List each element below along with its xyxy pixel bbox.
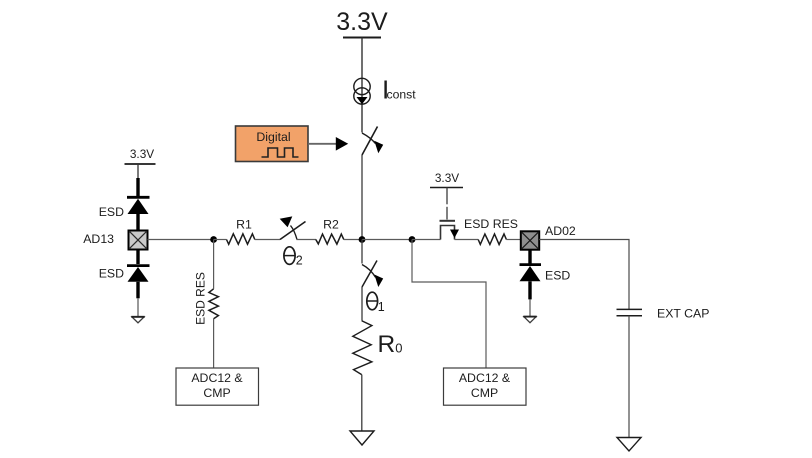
power rail 3.3V left <box>125 147 156 164</box>
ground (below AD02) <box>524 317 536 323</box>
Digital box <box>236 126 309 162</box>
svg-text:ESD: ESD <box>99 266 124 280</box>
wire ESD RES to AD02 <box>506 239 520 241</box>
svg-text:0: 0 <box>395 341 402 356</box>
svg-text:ESD RES: ESD RES <box>464 217 518 231</box>
ground (left small) <box>132 317 144 323</box>
svg-text:ADC12 &: ADC12 & <box>459 371 511 385</box>
wire D3 to ground <box>529 299 531 316</box>
node A junction <box>359 236 366 243</box>
svg-text:1: 1 <box>378 300 385 314</box>
svg-text:Digital: Digital <box>256 130 290 144</box>
pad AD13 crossed box <box>129 231 148 250</box>
power rail 3.3V top <box>336 8 388 38</box>
svg-text:2: 2 <box>296 254 303 268</box>
box ADC12 & CMP (left) <box>176 368 259 405</box>
svg-text:EXT CAP: EXT CAP <box>657 307 709 321</box>
svg-text:AD02: AD02 <box>545 224 576 238</box>
wire cap to ground <box>628 316 630 438</box>
wire node B down <box>213 240 215 289</box>
switch theta1 <box>362 240 383 288</box>
wire to left ground <box>137 298 139 316</box>
svg-text:R: R <box>378 331 396 358</box>
svg-text:R2: R2 <box>323 217 339 231</box>
label theta1 <box>367 292 385 314</box>
svg-text:3.3V: 3.3V <box>336 8 388 36</box>
switch S1 (digital controlled) <box>362 127 383 156</box>
resistor R0 <box>353 321 372 375</box>
pad AD02 crossed box <box>521 231 539 249</box>
resistor ESD RES (right) <box>478 234 506 245</box>
ground (under EXT CAP) <box>617 438 641 452</box>
wire resistor to ADC box <box>213 319 215 368</box>
resistor R1 <box>227 234 255 245</box>
ground (under R0) <box>350 431 374 445</box>
wire node A to node C <box>362 239 412 241</box>
label R0 <box>378 331 403 358</box>
svg-text:R1: R1 <box>236 217 252 231</box>
wire transistor to ESD RES <box>455 239 479 241</box>
wire S1 to node A <box>361 155 363 240</box>
node B junction <box>210 236 217 243</box>
resistor ESD RES (left vertical) <box>209 289 219 319</box>
arrow Digital to switch S1 <box>308 137 348 151</box>
wire AD02 to right rail <box>539 240 629 310</box>
wire switch to R2 <box>297 239 317 241</box>
current source Iconst <box>354 75 416 105</box>
ESD diode D2 (lower left) <box>127 250 150 299</box>
svg-text:AD13: AD13 <box>83 232 114 246</box>
capacitor EXT CAP <box>617 309 643 315</box>
power rail 3.3V right <box>430 171 463 188</box>
resistor R2 <box>316 234 344 244</box>
wire left rail down <box>137 164 139 179</box>
transistor M1 pass gate <box>440 188 460 240</box>
wire theta1 to R0 <box>361 287 363 321</box>
svg-text:ESD RES: ESD RES <box>194 272 208 325</box>
svg-text:ESD: ESD <box>545 269 570 283</box>
wire R2 to node A <box>344 239 362 241</box>
svg-text:const: const <box>387 88 417 102</box>
svg-text:ADC12 &: ADC12 & <box>191 371 243 385</box>
svg-text:CMP: CMP <box>471 386 498 400</box>
wire AD13 to node B <box>148 239 214 241</box>
node C junction <box>409 236 416 243</box>
wire node C to transistor <box>412 239 441 241</box>
svg-text:3.3V: 3.3V <box>130 147 154 161</box>
wire R1 to switch theta2 <box>255 239 280 241</box>
wire rail through current source to switch S1 <box>361 38 363 133</box>
wire node B to R1 <box>214 239 227 241</box>
wire node C down and right to ADC box <box>412 240 486 369</box>
label theta2 <box>284 247 303 268</box>
switch theta2 <box>280 216 306 239</box>
svg-text:CMP: CMP <box>203 386 230 400</box>
box ADC12 & CMP (right) <box>444 368 527 405</box>
ESD diode D1 (upper left) <box>127 178 150 231</box>
ESD diode D3 (below AD02) <box>520 250 542 300</box>
svg-text:3.3V: 3.3V <box>435 171 459 185</box>
svg-text:ESD: ESD <box>99 205 124 219</box>
wire R0 to ground <box>361 375 363 431</box>
